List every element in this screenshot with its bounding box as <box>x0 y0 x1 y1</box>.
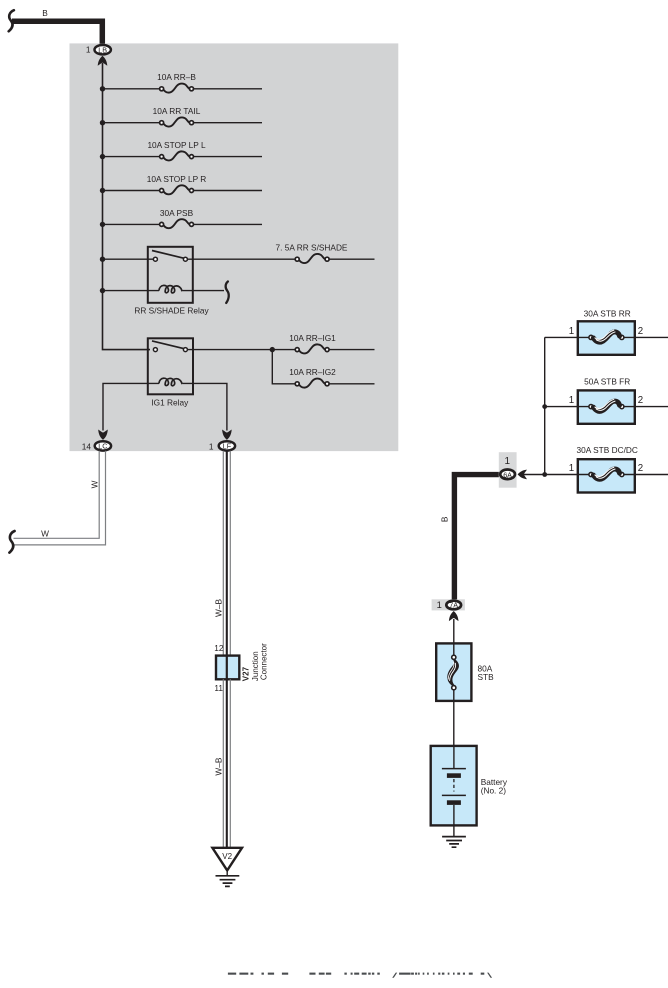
svg-text:14: 14 <box>82 442 92 452</box>
arrow into 7A <box>449 611 459 621</box>
arrow into LB <box>98 56 108 66</box>
relay coil input wire <box>100 288 159 293</box>
svg-text:10A RR–IG2: 10A RR–IG2 <box>289 367 336 377</box>
battery No.2 box <box>431 746 508 837</box>
arrow into LF <box>222 430 232 440</box>
fuse 30A STB RR <box>545 309 668 355</box>
svg-text:12: 12 <box>214 643 224 653</box>
IG1 coil <box>148 378 193 386</box>
fuse 10A RR-B <box>100 72 262 92</box>
svg-text:(No. 2): (No. 2) <box>481 786 507 796</box>
wire fuse 80A to battery <box>453 690 455 746</box>
svg-text:2: 2 <box>638 395 643 406</box>
junction connector V27 <box>214 643 268 693</box>
node junction <box>270 347 275 352</box>
svg-text:LF: LF <box>223 442 232 451</box>
connector 6A <box>500 470 515 480</box>
svg-text:Junction: Junction <box>251 651 260 681</box>
wire W-B below V27 <box>223 679 230 848</box>
fuse 10A STOP LP L <box>100 140 262 160</box>
fuse 10A RR TAIL <box>100 106 262 126</box>
svg-text:Connector: Connector <box>260 643 269 680</box>
svg-text:10A STOP LP L: 10A STOP LP L <box>147 140 206 150</box>
svg-text:50A STB FR: 50A STB FR <box>584 376 630 386</box>
svg-text:1: 1 <box>505 456 511 467</box>
relay RR S/SHADE coil <box>159 285 182 293</box>
svg-text:2: 2 <box>638 326 643 337</box>
ground symbol below V2 <box>216 870 240 886</box>
right bus wire <box>544 337 546 474</box>
wire W-B from LF (double line with stripe) <box>223 451 230 656</box>
wire W from LC (double line) <box>14 451 106 545</box>
svg-text:W–B: W–B <box>214 599 224 617</box>
svg-text:7A: 7A <box>449 601 458 610</box>
gray tag 6A <box>499 452 517 488</box>
fuse 30A PSB <box>100 208 262 228</box>
ground V2 triangle <box>212 848 242 871</box>
gray tag 7A <box>432 599 465 610</box>
svg-text:V27: V27 <box>241 666 250 681</box>
IG1 coil right wire down to LF <box>193 383 227 430</box>
arrow into 6A <box>518 470 527 480</box>
connector LF pin 1 <box>209 441 235 452</box>
thick wire B right side <box>454 475 498 600</box>
svg-text:11: 11 <box>214 683 223 693</box>
relay switch contacts <box>152 251 187 262</box>
wire break symbol (top left) <box>9 10 14 31</box>
fuse 30A STB DC/DC <box>524 445 668 493</box>
svg-text:B: B <box>440 516 450 522</box>
relay IG1 box <box>148 338 193 407</box>
wire 7A to fuse 80A <box>453 619 455 656</box>
IG1 coil left wire down to LC <box>103 383 148 430</box>
bottom watermark text (clipped glyph tops) <box>228 973 492 978</box>
svg-text:W: W <box>41 529 49 539</box>
svg-text:1: 1 <box>569 395 574 406</box>
svg-text:30A STB DC/DC: 30A STB DC/DC <box>577 445 638 455</box>
left bus wire <box>103 63 151 350</box>
svg-text:10A RR TAIL: 10A RR TAIL <box>153 106 201 116</box>
svg-text:10A STOP LP R: 10A STOP LP R <box>147 174 207 184</box>
fuse 80A STB <box>436 643 494 701</box>
main fuse-box panel (gray) <box>70 43 399 451</box>
svg-text:W–B: W–B <box>214 757 224 775</box>
svg-text:30A PSB: 30A PSB <box>160 208 194 218</box>
svg-text:6A: 6A <box>503 470 512 479</box>
svg-text:V2: V2 <box>222 852 232 861</box>
wire B (thick, battery feed top-left) <box>12 21 102 44</box>
branch wire to RR-IG2 <box>272 350 295 384</box>
connector LC pin 14 <box>82 441 111 452</box>
svg-text:LC: LC <box>98 442 107 451</box>
wire break symbol (bottom left) <box>9 531 14 553</box>
node dot 50A row <box>542 404 547 409</box>
svg-text:W: W <box>89 480 99 488</box>
connector LB pin 1 <box>86 45 111 55</box>
relay switch input wire <box>100 257 153 262</box>
svg-text:1: 1 <box>569 463 574 474</box>
fuse 10A STOP LP R <box>100 174 262 194</box>
svg-text:7. 5A RR S/SHADE: 7. 5A RR S/SHADE <box>276 243 348 253</box>
svg-text:30A STB RR: 30A STB RR <box>584 309 631 319</box>
svg-text:RR S/SHADE Relay: RR S/SHADE Relay <box>134 306 209 316</box>
ground below battery <box>442 837 466 848</box>
wire to 7.5A fuse <box>188 258 295 260</box>
IG1 switch output to junction <box>188 349 295 351</box>
fuse 7.5A RR S/SHADE <box>276 243 375 264</box>
svg-text:IG1 Relay: IG1 Relay <box>151 398 189 408</box>
svg-text:1: 1 <box>209 442 214 452</box>
fuse 10A RR-IG2 <box>289 367 374 388</box>
node dot DC/DC row <box>542 472 547 477</box>
fuse 50A STB FR <box>545 376 668 424</box>
fuse 10A RR-IG1 <box>289 333 374 354</box>
connector 7A <box>446 601 461 610</box>
svg-text:1: 1 <box>569 326 574 337</box>
svg-text:10A RR–B: 10A RR–B <box>157 72 196 82</box>
coil output wire with break <box>182 282 228 303</box>
svg-text:2: 2 <box>638 463 643 474</box>
arrow into LC <box>98 430 108 440</box>
svg-text:LB: LB <box>98 45 107 54</box>
relay RR S/SHADE box <box>134 247 209 316</box>
svg-text:10A RR–IG1: 10A RR–IG1 <box>289 333 336 343</box>
IG1 switch contacts <box>152 341 187 352</box>
svg-text:B: B <box>42 8 48 18</box>
svg-text:STB: STB <box>478 672 495 682</box>
svg-text:1: 1 <box>86 45 91 55</box>
svg-text:1: 1 <box>437 599 442 610</box>
